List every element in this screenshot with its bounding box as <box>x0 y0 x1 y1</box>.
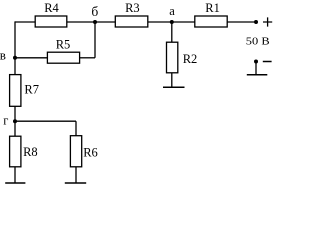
minus sign of source <box>263 61 272 63</box>
wire R1 right to + terminal <box>227 21 256 23</box>
svg-text:R8: R8 <box>23 145 38 159</box>
wire R2 bottom stem to ground <box>171 73 173 87</box>
svg-text:R4: R4 <box>44 1 59 15</box>
svg-text:R7: R7 <box>24 82 39 96</box>
resistor R2 <box>167 42 178 73</box>
wire node в to R5 left <box>15 57 47 59</box>
ground under R2 <box>163 86 185 88</box>
svg-text:R5: R5 <box>56 37 71 51</box>
svg-text:R2: R2 <box>183 52 198 66</box>
wire down from г branch to R6 top <box>75 121 77 136</box>
resistor R6 <box>70 136 81 167</box>
svg-text:R6: R6 <box>83 145 98 159</box>
node б junction dot <box>93 20 97 24</box>
resistor R5 <box>47 52 79 63</box>
wire R4 right to R3 left through node б <box>67 21 116 23</box>
resistor R3 <box>115 16 148 27</box>
wire top rail: corner to R4 left <box>15 21 35 23</box>
svg-text:б: б <box>91 4 98 19</box>
resistor R4 <box>35 16 67 27</box>
wire left rail top: corner down to R7 top <box>14 21 16 74</box>
wire R8 bottom stem to ground <box>14 167 16 183</box>
wire - terminal stem to ground <box>255 62 257 75</box>
ground under - terminal <box>247 74 267 76</box>
- terminal dot <box>254 60 258 64</box>
node г junction dot <box>13 119 17 123</box>
ground under R8 <box>5 182 25 184</box>
wire left rail: R7 bottom to R8 top through node г <box>14 106 16 136</box>
wire R5 right to node б riser <box>80 57 95 59</box>
resistor R8 <box>10 136 21 167</box>
svg-text:г: г <box>3 114 8 128</box>
svg-text:в: в <box>0 48 6 63</box>
wire node a down to R2 top <box>171 22 173 42</box>
resistor R1 <box>195 16 227 27</box>
node a junction dot <box>170 20 174 24</box>
wire riser from R5 row up to node б <box>94 22 96 58</box>
svg-text:R3: R3 <box>125 1 140 15</box>
ground under R6 <box>65 182 86 184</box>
svg-text:a: a <box>169 4 175 18</box>
node в junction dot <box>13 56 17 60</box>
+ terminal dot <box>254 20 258 24</box>
wire node г to R6 column <box>15 120 76 122</box>
wire R3 right to R1 left through node a <box>148 21 195 23</box>
resistor R7 <box>10 75 21 107</box>
svg-text:R1: R1 <box>205 1 220 15</box>
svg-text:50 В: 50 В <box>246 37 270 48</box>
wire R6 bottom stem to ground <box>75 167 77 183</box>
plus sign of source <box>263 17 272 26</box>
